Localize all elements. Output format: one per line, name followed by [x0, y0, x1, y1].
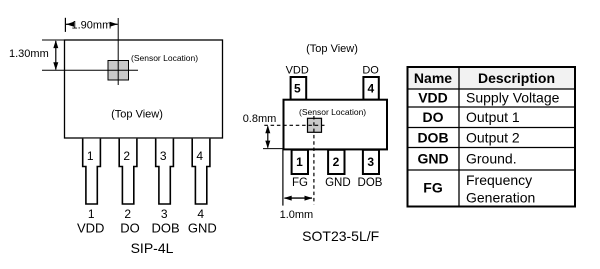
label (Top View) SIP — [111, 109, 163, 121]
label (Sensor Location) SOT — [299, 107, 366, 117]
pin 3 number — [367, 155, 374, 169]
svg-text:DOB: DOB — [417, 130, 448, 146]
svg-text:GND: GND — [188, 221, 217, 236]
pin 3 number below — [161, 207, 168, 221]
SIP-4L body outline — [65, 40, 223, 138]
dimension 1.90mm tick left — [64, 18, 66, 32]
pin 1 name FG — [292, 177, 308, 189]
pin 3 SIP outline — [156, 139, 174, 204]
sensor square SOT — [308, 118, 322, 132]
svg-text:3: 3 — [367, 155, 374, 169]
table row DO — [423, 109, 520, 125]
svg-text:Supply Voltage: Supply Voltage — [466, 90, 560, 106]
pin 5 name VDD — [286, 64, 309, 76]
caption SOT23-5L/F — [302, 228, 379, 244]
pin 4 number below — [197, 207, 204, 221]
pin 3 name DOB — [152, 221, 180, 236]
caption SIP-4L — [131, 240, 174, 256]
svg-text:VDD: VDD — [286, 64, 309, 76]
svg-text:1.30mm: 1.30mm — [9, 48, 49, 60]
pin 2 SIP outline — [119, 139, 137, 204]
table header Name — [414, 70, 452, 86]
svg-text:3: 3 — [160, 149, 167, 163]
svg-text:1: 1 — [88, 207, 95, 221]
pin 2 name DO — [120, 221, 140, 236]
SOT23 body outline — [284, 100, 388, 150]
pin 1 SIP outline — [83, 139, 101, 204]
table row VDD — [418, 90, 559, 106]
table row GND — [417, 151, 516, 167]
svg-text:FG: FG — [423, 180, 443, 196]
value label 1.0mm — [280, 209, 314, 221]
table row FG — [423, 172, 535, 206]
dashed centerline horizontal SOT — [264, 124, 325, 126]
pin 3 SOT outline — [363, 150, 379, 174]
sensor square SIP — [108, 61, 129, 81]
pin 1 name VDD — [77, 221, 104, 236]
dimension 1.0mm arrow — [284, 196, 313, 201]
extension line top-left SIP — [42, 39, 65, 41]
svg-text:Name: Name — [414, 70, 452, 86]
svg-text:Description: Description — [478, 70, 555, 86]
dimension 1.30mm arrow — [53, 40, 58, 70]
svg-text:DOB: DOB — [152, 221, 180, 236]
pin 2 name GND — [325, 177, 351, 189]
svg-text:Output 1: Output 1 — [466, 109, 520, 125]
pin 4 number — [367, 81, 374, 95]
table outer border — [408, 67, 576, 207]
value label 1.90mm — [72, 19, 112, 31]
svg-text:SOT23-5L/F: SOT23-5L/F — [302, 228, 379, 244]
table header Description — [478, 70, 555, 86]
table header background — [409, 68, 575, 89]
svg-text:DOB: DOB — [358, 177, 383, 189]
svg-text:1: 1 — [296, 155, 303, 169]
pin 3 number — [160, 149, 167, 163]
pin 2 number below — [124, 207, 131, 221]
svg-text:SIP-4L: SIP-4L — [131, 240, 174, 256]
label (Top View) SOT — [306, 43, 358, 55]
svg-text:0.8mm: 0.8mm — [243, 113, 277, 125]
pin 1 number — [87, 149, 94, 163]
pin 2 number — [333, 155, 340, 169]
svg-text:2: 2 — [123, 149, 130, 163]
table row DOB — [417, 130, 519, 146]
svg-text:2: 2 — [124, 207, 131, 221]
svg-text:(Sensor Location): (Sensor Location) — [131, 53, 198, 63]
svg-text:Generation: Generation — [466, 190, 535, 206]
svg-text:Frequency: Frequency — [466, 172, 532, 188]
pin 2 number — [123, 149, 130, 163]
pin 1 SOT outline — [292, 150, 308, 174]
pin 4 SOT outline — [363, 77, 378, 100]
pin 4 SIP outline — [192, 139, 210, 204]
svg-text:Output 2: Output 2 — [466, 130, 520, 146]
svg-text:GND: GND — [325, 177, 351, 189]
svg-text:4: 4 — [197, 207, 204, 221]
svg-text:5: 5 — [294, 81, 301, 95]
svg-text:VDD: VDD — [77, 221, 104, 236]
value label 1.30mm — [9, 48, 49, 60]
dimension 1.90mm arrows — [66, 22, 118, 27]
svg-text:(Top View): (Top View) — [111, 109, 163, 121]
pin 2 SOT outline — [328, 150, 344, 174]
pin 4 name GND — [188, 221, 217, 236]
svg-text:GND: GND — [417, 151, 448, 167]
pin 1 number below — [88, 207, 95, 221]
dashed centerline vertical SOT — [313, 116, 315, 205]
pin 4 name DO — [362, 64, 379, 76]
svg-text:DO: DO — [423, 109, 444, 125]
svg-text:DO: DO — [362, 64, 379, 76]
svg-text:1.90mm: 1.90mm — [72, 19, 112, 31]
table column divider — [458, 67, 460, 207]
svg-text:4: 4 — [367, 81, 374, 95]
pin 4 number — [196, 149, 203, 163]
extension line body bottom-left SOT — [263, 148, 284, 150]
svg-text:1: 1 — [87, 149, 94, 163]
svg-text:(Top View): (Top View) — [306, 43, 358, 55]
extension line body left edge down SOT — [282, 149, 284, 206]
dimension 0.8mm arrow — [265, 125, 270, 148]
pin 5 number — [294, 81, 301, 95]
svg-text:DO: DO — [120, 221, 140, 236]
pin 3 name DOB — [358, 177, 383, 189]
label (Sensor Location) SIP — [131, 53, 198, 63]
svg-text:2: 2 — [333, 155, 340, 169]
svg-text:(Sensor Location): (Sensor Location) — [299, 107, 366, 117]
svg-text:3: 3 — [161, 207, 168, 221]
centerline horizontal through sensor SIP — [42, 69, 138, 71]
pin 1 number — [296, 155, 303, 169]
value label 0.8mm — [243, 113, 277, 125]
table row lines — [408, 89, 576, 170]
svg-text:1.0mm: 1.0mm — [280, 209, 314, 221]
svg-text:VDD: VDD — [418, 90, 448, 106]
svg-text:4: 4 — [196, 149, 203, 163]
svg-text:FG: FG — [292, 177, 308, 189]
pin 5 SOT outline — [291, 77, 307, 100]
centerline vertical through sensor SIP — [117, 18, 119, 85]
svg-text:Ground.: Ground. — [466, 151, 517, 167]
